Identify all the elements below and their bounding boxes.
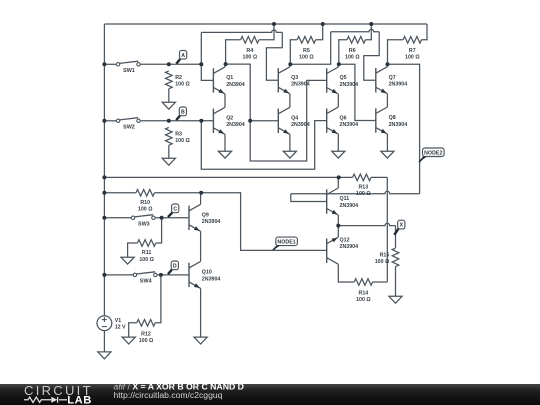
svg-text:R14: R14	[359, 291, 369, 297]
svg-text:100 Ω: 100 Ω	[299, 54, 314, 60]
svg-text:R5: R5	[303, 48, 310, 54]
svg-text:100 Ω: 100 Ω	[356, 297, 371, 303]
svg-text:2N3904: 2N3904	[340, 203, 359, 209]
svg-text:12 V: 12 V	[115, 325, 126, 331]
svg-text:Q5: Q5	[340, 75, 347, 81]
svg-text:R12: R12	[141, 331, 151, 337]
svg-text:100 Ω: 100 Ω	[175, 138, 190, 144]
svg-text:100 Ω: 100 Ω	[138, 207, 153, 213]
svg-text:R3: R3	[175, 131, 182, 137]
svg-text:2N3904: 2N3904	[389, 122, 408, 128]
svg-text:NODE2: NODE2	[424, 150, 442, 156]
svg-text:V1: V1	[115, 318, 122, 324]
svg-text:R6: R6	[349, 48, 356, 54]
svg-text:Q3: Q3	[291, 75, 298, 81]
svg-text:C: C	[173, 206, 177, 212]
svg-text:2N3904: 2N3904	[340, 82, 359, 88]
svg-text:R13: R13	[358, 184, 368, 190]
svg-text:R7: R7	[409, 48, 416, 54]
svg-text:Q1: Q1	[226, 75, 233, 81]
svg-text:2N3904: 2N3904	[226, 82, 245, 88]
svg-text:Q8: Q8	[389, 115, 396, 121]
svg-text:X: X	[400, 223, 404, 229]
svg-text:Q12: Q12	[340, 237, 350, 243]
svg-text:2N3904: 2N3904	[389, 82, 408, 88]
svg-text:100 Ω: 100 Ω	[345, 54, 360, 60]
svg-text:2N3904: 2N3904	[202, 219, 221, 225]
svg-text:Q11: Q11	[340, 196, 350, 202]
svg-text:NODE1: NODE1	[277, 239, 295, 245]
svg-text:100 Ω: 100 Ω	[175, 81, 190, 87]
svg-text:R10: R10	[140, 200, 150, 206]
svg-text:LAB: LAB	[67, 395, 92, 405]
svg-text:2N3904: 2N3904	[291, 122, 310, 128]
svg-text:R2: R2	[175, 75, 182, 81]
svg-text:100 Ω: 100 Ω	[356, 191, 371, 197]
svg-text:Q2: Q2	[226, 116, 233, 122]
svg-text:SW3: SW3	[138, 221, 150, 227]
svg-text:SW2: SW2	[123, 124, 135, 130]
svg-text:A: A	[181, 53, 185, 59]
svg-text:Q4: Q4	[291, 116, 298, 122]
svg-text:2N3904: 2N3904	[202, 276, 221, 282]
svg-text:Q10: Q10	[202, 270, 212, 276]
svg-text:2N3904: 2N3904	[291, 82, 310, 88]
svg-text:2N3904: 2N3904	[340, 122, 359, 128]
svg-text:http://circuitlab.com/c2cgguq: http://circuitlab.com/c2cgguq	[114, 390, 223, 400]
svg-text:Q9: Q9	[202, 213, 209, 219]
svg-text:B: B	[181, 109, 185, 115]
svg-text:SW4: SW4	[140, 279, 152, 285]
svg-text:100 Ω: 100 Ω	[405, 54, 420, 60]
svg-text:2N3904: 2N3904	[226, 122, 245, 128]
svg-text:Q7: Q7	[389, 75, 396, 81]
svg-text:Q6: Q6	[340, 115, 347, 121]
svg-text:R15: R15	[380, 252, 390, 258]
svg-text:100 Ω: 100 Ω	[243, 54, 258, 60]
svg-text:2N3904: 2N3904	[340, 244, 359, 250]
svg-text:100 Ω: 100 Ω	[375, 259, 390, 265]
svg-text:D: D	[173, 263, 177, 269]
svg-text:100 Ω: 100 Ω	[139, 257, 154, 263]
svg-text:100 Ω: 100 Ω	[139, 338, 154, 344]
svg-text:R4: R4	[246, 48, 253, 54]
svg-text:SW1: SW1	[123, 68, 135, 74]
svg-text:R11: R11	[142, 250, 151, 256]
